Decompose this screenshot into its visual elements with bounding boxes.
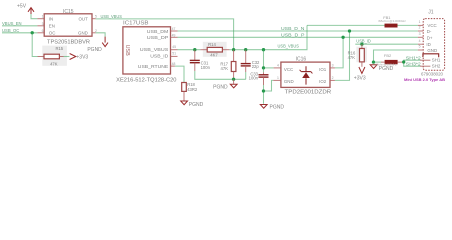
pin stub OC (pin 6)	[37, 32, 44, 34]
ground PGND (shield)	[370, 65, 393, 72]
supply +3V3 arrow (R16)	[354, 67, 366, 81]
svg-text:D-: D-	[427, 29, 432, 34]
svg-text:2: 2	[332, 76, 334, 80]
svg-text:679038020: 679038020	[421, 72, 444, 77]
wire VBUS down to VCC node	[263, 50, 265, 68]
node junction shield/PGND	[372, 60, 375, 63]
wire +5V to IN	[31, 14, 37, 19]
wire USB_D_N	[178, 30, 418, 32]
svg-text:USB: USB	[124, 45, 130, 56]
pin stub USB_ID 51	[171, 55, 178, 57]
pin stub J1 ID 4	[418, 43, 423, 45]
resistor R16	[348, 44, 367, 67]
node junction IO2/D_N	[348, 29, 351, 32]
wire VCC top to connector	[307, 24, 418, 26]
wire USB_VBUS from OUT	[96, 19, 234, 50]
svg-text:PGND: PGND	[87, 47, 102, 53]
wire C32 to rail end	[245, 72, 247, 79]
ground PGND arrow (IC15)	[87, 37, 108, 53]
svg-text:VCC: VCC	[284, 67, 293, 72]
svg-text:100n: 100n	[249, 75, 259, 80]
wire VCC node to IC16	[264, 67, 274, 69]
svg-text:3: 3	[332, 63, 334, 67]
svg-text:43R2: 43R2	[187, 87, 198, 92]
ferrite FB1	[378, 15, 406, 28]
svg-text:OC: OC	[49, 31, 56, 36]
svg-text:OUT: OUT	[79, 16, 89, 21]
svg-text:SH2: SH2	[432, 64, 441, 69]
op IC16 TPD2E001 ESD protection	[281, 56, 332, 95]
connector J1 Mini USB	[404, 10, 445, 83]
svg-text:GND: GND	[427, 48, 437, 53]
svg-text:USB_D_P: USB_D_P	[281, 32, 305, 37]
wire VBUS after R14	[229, 25, 307, 49]
pin stub USB_DP 49	[171, 36, 178, 38]
resistor R14	[200, 42, 229, 58]
node junction C33 top	[262, 48, 265, 51]
svg-text:48: 48	[172, 62, 176, 66]
wire GND branch to IC16	[264, 80, 274, 91]
ground PGND (C33)	[260, 104, 284, 110]
svg-text:GND: GND	[284, 79, 294, 84]
svg-text:R15: R15	[55, 46, 63, 51]
wire C31 to rail	[195, 71, 246, 79]
wire C33 to PGND	[263, 85, 265, 104]
node junction top drop / R17	[232, 48, 235, 51]
svg-text:SH3*2: SH3*2	[406, 61, 422, 66]
pin stub IC16 VCC (4)	[274, 67, 281, 69]
pin stub GND (pin 2)	[92, 32, 96, 34]
svg-text:+3V3: +3V3	[76, 54, 88, 60]
svg-text:1: 1	[419, 20, 421, 24]
svg-text:45: 45	[172, 45, 176, 49]
svg-text:+3V3: +3V3	[354, 75, 366, 81]
svg-text:47K: 47K	[50, 61, 58, 66]
pin stub J1 SH1	[420, 59, 430, 61]
svg-text:2: 2	[95, 29, 97, 33]
node junction rail R17	[232, 78, 235, 81]
svg-text:TPS2051BDBVR: TPS2051BDBVR	[47, 40, 90, 46]
node junction IO1/D_P	[341, 36, 344, 39]
svg-text:68ohm@100MHz: 68ohm@100MHz	[378, 19, 406, 23]
svg-text:USB_ID: USB_ID	[356, 39, 371, 44]
op IC17 XMOS USB block	[116, 21, 177, 84]
svg-text:49: 49	[172, 34, 176, 38]
pin stub OUT (pin 5)	[92, 18, 96, 20]
svg-text:PGND: PGND	[213, 85, 228, 91]
pin stub IC16 GND (1)	[273, 79, 281, 81]
diode TVS inside IC16	[300, 66, 313, 84]
node junction C31	[193, 48, 196, 51]
pin stub J1 VCC 1	[418, 24, 423, 26]
resistor R17	[220, 50, 236, 80]
svg-text:68ohm@100MHz: 68ohm@100MHz	[375, 62, 397, 66]
svg-text:TPD2E001DZDR: TPD2E001DZDR	[285, 90, 332, 96]
capacitor C32	[241, 50, 260, 72]
wire FB2 to shield pins	[404, 60, 420, 62]
pin stub J1 GND 5	[418, 49, 423, 51]
node junction shield split	[402, 60, 405, 63]
capacitor C33	[249, 68, 269, 85]
svg-text:SH1: SH1	[432, 58, 441, 63]
supply +3V3 arrow (R15)	[70, 54, 89, 61]
svg-text:47K: 47K	[221, 66, 229, 71]
svg-text:GND: GND	[78, 31, 88, 36]
node junction R16	[360, 43, 363, 46]
svg-text:22p: 22p	[252, 64, 260, 69]
pin stub EN (pin 3)	[37, 25, 44, 27]
svg-text:EN: EN	[49, 24, 55, 29]
pin stub J1 D+ 3	[418, 36, 423, 38]
pin stub IC16 IO2 (2)	[330, 79, 335, 81]
svg-text:USB_DM: USB_DM	[147, 29, 169, 34]
svg-text:USB_VBUS: USB_VBUS	[101, 14, 123, 19]
svg-text:47: 47	[172, 27, 176, 31]
svg-text:3: 3	[419, 32, 421, 36]
op IC15 TPS2051B power switch	[44, 9, 92, 46]
svg-text:IC17USB: IC17USB	[123, 21, 149, 27]
svg-text:5: 5	[95, 15, 97, 19]
svg-text:1: 1	[42, 15, 44, 19]
pin stub J1 D- 2	[418, 30, 423, 32]
capacitor C31	[190, 50, 211, 71]
wire USB_ID	[355, 43, 418, 45]
svg-text:4: 4	[419, 39, 421, 43]
pin stub J1 SH2	[420, 65, 430, 67]
svg-text:4K7: 4K7	[210, 52, 218, 57]
pin stub IN (pin 1)	[37, 18, 44, 20]
svg-text:+5V: +5V	[17, 3, 27, 9]
svg-text:USB_D_N: USB_D_N	[281, 26, 305, 31]
wire OC junction down to R15	[32, 33, 37, 57]
svg-text:2: 2	[419, 26, 421, 30]
pin stub IC16 IO1 (3)	[330, 67, 335, 69]
supply +5V symbol	[17, 3, 34, 14]
wire RTUNE to R18	[175, 66, 184, 82]
svg-text:USB_ID: USB_ID	[150, 54, 168, 59]
svg-text:FB2: FB2	[384, 53, 392, 58]
svg-text:VCC: VCC	[427, 23, 436, 28]
wire IO1 to USB_D_P	[335, 37, 343, 68]
svg-text:J1: J1	[428, 10, 434, 16]
svg-text:D+: D+	[427, 36, 433, 41]
svg-text:5: 5	[419, 45, 421, 49]
svg-text:PGND: PGND	[270, 104, 285, 110]
svg-text:51: 51	[172, 52, 176, 56]
svg-text:100n: 100n	[201, 65, 211, 70]
svg-text:XE216-512-TQ128-C20: XE216-512-TQ128-C20	[116, 78, 177, 84]
resistor R15	[38, 46, 70, 67]
svg-text:USB_VBUS: USB_VBUS	[278, 43, 300, 48]
ground PGND (R18)	[181, 101, 204, 108]
svg-text:USB_VBUS: USB_VBUS	[140, 47, 169, 52]
pin stub USB_VBUS 45	[171, 49, 178, 51]
node junction VCC	[262, 66, 265, 69]
svg-text:IC16: IC16	[296, 56, 307, 62]
svg-text:ID: ID	[426, 42, 430, 47]
svg-text:IN: IN	[49, 16, 53, 21]
svg-text:IO2: IO2	[319, 79, 327, 84]
svg-text:PGND: PGND	[379, 66, 394, 72]
node junction GND branch	[262, 89, 265, 92]
svg-text:USB_RTUNE: USB_RTUNE	[138, 64, 169, 69]
svg-text:1: 1	[277, 76, 279, 80]
svg-text:PGND: PGND	[189, 102, 204, 108]
ferrite FB2	[375, 53, 403, 66]
wire VBUS_EN to EN	[2, 25, 37, 27]
wire USB_VBUS middle	[178, 49, 201, 51]
pin stub USB_RTUNE 48	[171, 65, 175, 67]
resistor R18	[182, 82, 198, 101]
wire IO2 to USB_D_N	[335, 31, 350, 80]
wire GND to PGND	[96, 33, 106, 37]
svg-text:SH1*2: SH1*2	[406, 56, 422, 61]
svg-text:4: 4	[277, 64, 279, 68]
svg-text:47K: 47K	[348, 55, 356, 60]
wire USB_OC to OC	[2, 32, 37, 34]
wire shield to FB2	[374, 61, 382, 63]
svg-text:Mini USB 2.0 Type AB: Mini USB 2.0 Type AB	[404, 78, 445, 82]
svg-text:USB_DP: USB_DP	[147, 35, 169, 40]
wire GND from connector	[374, 50, 418, 62]
node junction C32	[244, 48, 247, 51]
svg-text:3: 3	[42, 22, 44, 26]
svg-text:IO1: IO1	[319, 67, 327, 72]
ground PGND (rail)	[213, 79, 237, 90]
wire USB_D_P	[178, 36, 418, 38]
svg-text:6: 6	[42, 29, 44, 33]
pin stub USB_DM 47	[171, 30, 178, 32]
node junction USB_OC	[31, 31, 34, 34]
svg-text:R14: R14	[208, 42, 216, 47]
